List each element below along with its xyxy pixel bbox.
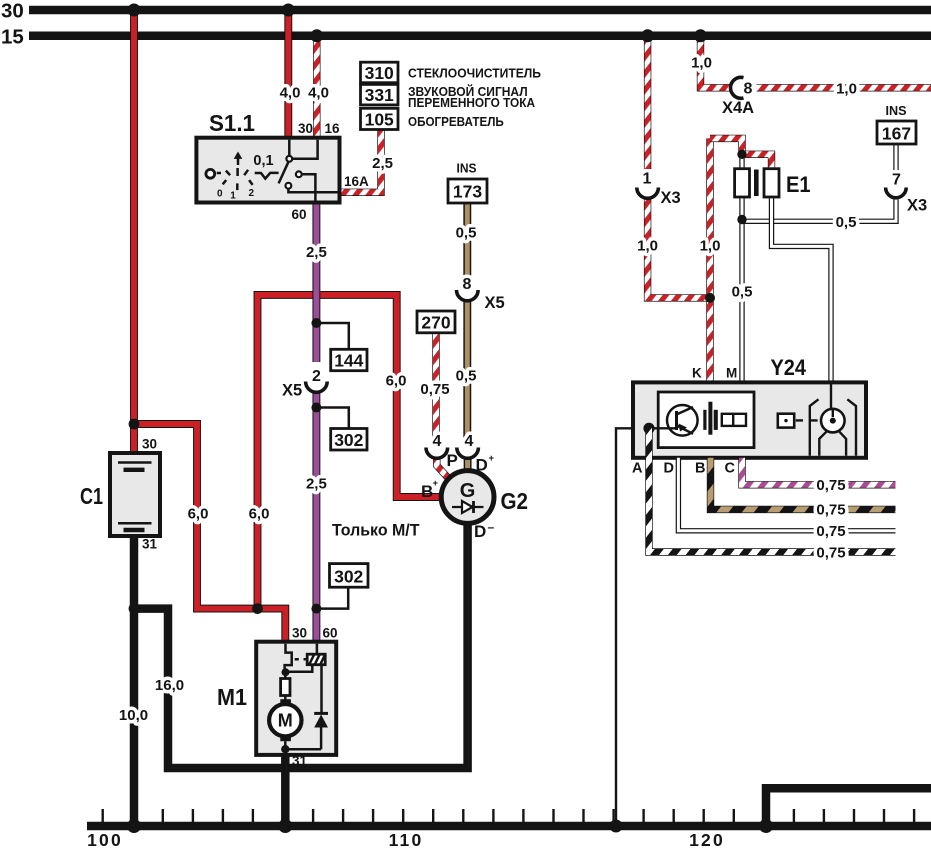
svg-text:30: 30 bbox=[298, 121, 313, 136]
heater E1 right element bbox=[764, 169, 779, 197]
wire hatched tan Y24 pin B bbox=[711, 458, 896, 510]
Y24 transistor collector bbox=[677, 407, 694, 415]
svg-text:4,0: 4,0 bbox=[280, 85, 301, 102]
svg-text:0,75: 0,75 bbox=[420, 381, 449, 398]
M1 junction dot top bbox=[282, 668, 290, 676]
junction bus30 at C1 feed bbox=[128, 4, 141, 17]
svg-text:0: 0 bbox=[217, 189, 223, 200]
wire hatched red K riser to Y24 bbox=[706, 138, 713, 384]
Y24 capacitor bars bbox=[703, 410, 706, 430]
fuse box 105 bbox=[361, 108, 399, 129]
junction hatched X3-1 to K riser bbox=[705, 293, 715, 303]
svg-text:6,0: 6,0 bbox=[249, 506, 270, 523]
connector X4A pin8 arc bbox=[731, 77, 744, 98]
Y24 transistor circle bbox=[667, 405, 698, 436]
svg-text:2,5: 2,5 bbox=[306, 476, 327, 493]
wire hatched red junction to E1 right bbox=[742, 154, 772, 170]
svg-text:B: B bbox=[695, 461, 705, 477]
M1 dashes bbox=[295, 658, 307, 661]
connector 4 arc left bbox=[426, 448, 448, 459]
G2 diode symbol bbox=[452, 506, 484, 508]
svg-text:1,0: 1,0 bbox=[691, 55, 712, 72]
C1 plate long top bbox=[118, 461, 152, 464]
M1 junction to coil bottom bbox=[286, 665, 313, 672]
motor unit M1 body bbox=[256, 642, 336, 755]
Y24 transistor base bar bbox=[675, 411, 678, 430]
Y24 sensor square bbox=[778, 414, 794, 428]
wire hatched red X3-1 to K riser bbox=[648, 200, 710, 298]
wire hatched red connector 4 to G2 B+ bbox=[437, 459, 450, 480]
node 302 box lower bbox=[330, 564, 369, 588]
svg-text:0,1: 0,1 bbox=[253, 153, 273, 169]
svg-text:310: 310 bbox=[365, 63, 394, 83]
svg-text:120: 120 bbox=[689, 830, 725, 848]
svg-text:144: 144 bbox=[334, 351, 363, 371]
svg-text:M: M bbox=[726, 366, 737, 381]
C1 plate short bottom bbox=[124, 528, 145, 532]
svg-text:INS: INS bbox=[886, 103, 907, 118]
Y24 coil circle bbox=[821, 409, 845, 433]
svg-text:1,0: 1,0 bbox=[836, 81, 857, 98]
wire hatched red from box 270 bbox=[432, 333, 439, 442]
svg-text:G: G bbox=[460, 480, 476, 502]
wire black M1 pin31 ground bbox=[281, 754, 290, 826]
heater E1 left element bbox=[735, 169, 750, 197]
wire tan X5-8 to connector 4 bbox=[463, 301, 471, 442]
svg-text:X3: X3 bbox=[907, 197, 927, 215]
wire white box167 to X3-7 bbox=[893, 144, 898, 171]
wire S1.1 pin30 feed from bus 30 bbox=[284, 10, 292, 139]
junction bus15 at X3-1 feed bbox=[641, 29, 654, 42]
svg-text:X4A: X4A bbox=[722, 99, 754, 117]
svg-text:167: 167 bbox=[882, 124, 911, 144]
S1.1 zigzag symbol bbox=[255, 173, 279, 179]
svg-text:0,5: 0,5 bbox=[836, 214, 857, 231]
svg-text:10,0: 10,0 bbox=[119, 707, 148, 724]
wire red riser to G2 B+ bbox=[258, 295, 444, 609]
Y24 spark gap right inner bbox=[839, 431, 846, 456]
wire white E1 left top bbox=[739, 154, 744, 170]
S1.1 contact 2 with lead to pin60 bbox=[296, 171, 302, 177]
svg-text:B: B bbox=[421, 482, 433, 501]
junction hatched at E1 top bbox=[737, 150, 746, 159]
relay Y24 body bbox=[633, 382, 866, 457]
bus 15 bbox=[29, 32, 931, 41]
connector X3 pin7 arc bbox=[886, 188, 907, 198]
svg-text:30: 30 bbox=[292, 626, 307, 641]
svg-text:105: 105 bbox=[365, 110, 394, 130]
svg-text:0,75: 0,75 bbox=[816, 523, 845, 540]
Y24 base lead from pin A bbox=[649, 427, 677, 429]
svg-text:G2: G2 bbox=[501, 488, 529, 514]
svg-text:173: 173 bbox=[453, 182, 482, 202]
svg-text:31: 31 bbox=[142, 537, 158, 552]
wire tan connector 4 to G2 D+ bbox=[464, 459, 472, 474]
Y24 junction dot pin A bbox=[643, 423, 654, 434]
fuse box 331 bbox=[361, 84, 399, 105]
M1 diode bbox=[320, 665, 323, 750]
svg-text:4: 4 bbox=[433, 433, 442, 450]
svg-text:S1.1: S1.1 bbox=[209, 110, 255, 136]
svg-text:A: A bbox=[632, 461, 643, 477]
svg-text:8: 8 bbox=[744, 81, 753, 98]
svg-text:D: D bbox=[474, 522, 486, 541]
node 144 box bbox=[331, 349, 367, 370]
bus 30 bbox=[29, 6, 931, 15]
M1 junction dot bottom bbox=[281, 745, 289, 753]
svg-text:X5: X5 bbox=[282, 382, 302, 400]
Y24 dashed link bbox=[796, 419, 818, 421]
M1 brush top bbox=[280, 699, 291, 704]
C1 plate short top bbox=[124, 468, 145, 472]
wire lead to box 302 lower bbox=[316, 586, 348, 609]
S1.1 internal pin30 lead bbox=[288, 140, 291, 156]
fuse box 310 bbox=[361, 62, 399, 82]
S1.1 contact 3 with lead to 16A bbox=[286, 183, 292, 189]
svg-text:+: + bbox=[489, 453, 495, 464]
svg-text:60: 60 bbox=[292, 207, 307, 222]
wire white junction to X3-7 bbox=[742, 200, 896, 222]
svg-text:+: + bbox=[433, 478, 439, 489]
svg-text:E1: E1 bbox=[786, 172, 811, 197]
svg-text:ОБОГРЕВАТЕЛЬ: ОБОГРЕВАТЕЛЬ bbox=[408, 114, 504, 129]
svg-text:X3: X3 bbox=[661, 189, 681, 207]
junction bus30 at S1.1 feed bbox=[282, 4, 295, 17]
ruler baseline bbox=[87, 822, 931, 831]
svg-text:302: 302 bbox=[334, 430, 363, 450]
svg-text:C: C bbox=[725, 461, 736, 477]
wire tan 173 to X5-8 bbox=[463, 203, 471, 280]
svg-text:M1: M1 bbox=[217, 684, 247, 710]
wire purple 60 upper S1.1 to X5-2 bbox=[312, 203, 320, 363]
junction purple at 144 bbox=[311, 318, 321, 328]
svg-text:D: D bbox=[664, 461, 674, 477]
Y24 spark gap left inner bbox=[819, 431, 827, 456]
C1 plate long bottom bbox=[118, 522, 152, 525]
junction red C1 branch bbox=[129, 419, 140, 430]
connector 4 arc right bbox=[457, 448, 479, 459]
svg-text:0,5: 0,5 bbox=[732, 284, 753, 301]
svg-text:0,75: 0,75 bbox=[816, 477, 845, 494]
Y24 transistor emitter bbox=[677, 426, 694, 434]
svg-text:8: 8 bbox=[463, 276, 472, 293]
junction ruler at step bbox=[759, 819, 773, 833]
svg-text:16,0: 16,0 bbox=[155, 677, 184, 694]
svg-text:СТЕКЛООЧИСТИТЕЛЬ: СТЕКЛООЧИСТИТЕЛЬ bbox=[408, 66, 541, 81]
Y24 divided rectangle bbox=[722, 414, 746, 426]
M1 motor circle bbox=[269, 704, 301, 736]
junction purple at 302 upper bbox=[311, 403, 321, 413]
node 173 box bbox=[448, 179, 487, 203]
svg-text:6,0: 6,0 bbox=[386, 373, 407, 390]
svg-text:1,0: 1,0 bbox=[700, 238, 721, 255]
svg-text:2: 2 bbox=[249, 188, 255, 199]
junction red riser bbox=[252, 603, 263, 614]
junction bus15 at S1.1 pin16 feed bbox=[310, 29, 323, 42]
svg-text:30: 30 bbox=[1, 0, 24, 23]
svg-text:1: 1 bbox=[643, 171, 652, 188]
S1.1 switch blade bbox=[279, 161, 289, 183]
wire hatched red link to E1 junction bbox=[710, 138, 742, 154]
junction bus15 at X4A feed bbox=[694, 29, 707, 42]
wire lead to box 302 upper bbox=[316, 408, 348, 430]
connector X5 pin8 arc bbox=[457, 290, 479, 301]
wire white E1 left bottom to junction bbox=[739, 197, 744, 382]
S1.1 contact 1 bbox=[286, 156, 292, 162]
wire black C1 ground bbox=[130, 536, 139, 826]
svg-text:302: 302 bbox=[334, 567, 363, 587]
heater E1 center bar bbox=[754, 170, 759, 197]
svg-text:0,75: 0,75 bbox=[816, 545, 845, 562]
svg-text:INS: INS bbox=[457, 161, 477, 176]
svg-text:110: 110 bbox=[389, 830, 424, 848]
svg-text:60: 60 bbox=[323, 626, 338, 641]
wire C1 feed from bus 30 bbox=[130, 10, 138, 453]
wire white E1 right leg to Y24 coil bbox=[772, 197, 832, 382]
svg-text:M: M bbox=[278, 711, 293, 731]
switch S1.1 body bbox=[196, 138, 339, 203]
svg-text:P: P bbox=[447, 451, 458, 470]
battery C1 body bbox=[110, 453, 160, 536]
ground step wire bottom right bbox=[766, 788, 931, 826]
Y24 spark gap right outer bbox=[847, 399, 856, 456]
junction white below E1 bbox=[737, 215, 746, 224]
S1.1 internal pin16 lead bbox=[292, 140, 318, 159]
svg-text:Y24: Y24 bbox=[771, 355, 807, 380]
svg-text:X5: X5 bbox=[485, 294, 505, 312]
svg-text:ПЕРЕМЕННОГО ТОКА: ПЕРЕМЕННОГО ТОКА bbox=[408, 95, 536, 110]
svg-text:30: 30 bbox=[142, 437, 157, 452]
svg-text:0,5: 0,5 bbox=[456, 368, 477, 385]
svg-text:2,5: 2,5 bbox=[306, 244, 327, 261]
wire hatched black Y24 pin A bbox=[649, 428, 896, 552]
M1 bottom lead bbox=[284, 741, 287, 749]
wire hatched red bus15 to X4A bbox=[701, 36, 732, 88]
svg-text:16A: 16A bbox=[344, 174, 369, 189]
S1.1 rotary positions symbol bbox=[223, 152, 253, 191]
svg-text:16: 16 bbox=[325, 121, 341, 136]
svg-text:2: 2 bbox=[312, 368, 321, 385]
wire red branch C1 to M1 pin30 bbox=[134, 424, 285, 643]
wire hatched red X4A to right edge bbox=[757, 84, 931, 91]
M1 brush bottom bbox=[280, 736, 291, 741]
svg-text:4,0: 4,0 bbox=[308, 85, 329, 102]
wire black ground branch G2 D- bbox=[134, 520, 468, 768]
svg-text:0,75: 0,75 bbox=[816, 502, 845, 519]
svg-text:C1: C1 bbox=[80, 483, 103, 509]
M1 resistor bbox=[284, 671, 287, 700]
svg-text:270: 270 bbox=[421, 313, 450, 333]
junction ruler at Y24 link bbox=[610, 820, 623, 833]
node 167 box bbox=[877, 121, 916, 144]
wire purple 60 lower X5-2 to M1 bbox=[312, 393, 320, 644]
M1 pin30 internal contact bbox=[285, 644, 292, 669]
M1 pin31 lead bbox=[284, 749, 287, 754]
connector X5 pin2 arc bbox=[306, 382, 328, 393]
M1 pin60 to coil top bbox=[316, 644, 319, 655]
svg-text:4: 4 bbox=[465, 433, 474, 450]
svg-text:Только М/Т: Только М/Т bbox=[332, 521, 420, 540]
Y24 coil feed line bbox=[821, 382, 831, 420]
svg-text:7: 7 bbox=[892, 172, 901, 189]
junction ruler at C1 ground bbox=[127, 819, 141, 833]
connector X3 pin1 arc bbox=[637, 188, 659, 199]
svg-text:D: D bbox=[476, 456, 488, 475]
node 270 box bbox=[417, 311, 455, 333]
svg-text:K: K bbox=[692, 366, 702, 381]
M1 diode to junction bbox=[285, 748, 321, 751]
generator G2 body bbox=[441, 471, 494, 524]
M1 relay coil bbox=[307, 654, 325, 665]
Y24 spark gap left outer bbox=[810, 399, 819, 456]
wire hatched purple Y24 pin C bbox=[742, 458, 896, 485]
svg-text:1,0: 1,0 bbox=[637, 238, 658, 255]
ruler ticks bbox=[103, 809, 914, 822]
node 302 box upper bbox=[331, 429, 367, 451]
svg-text:2,5: 2,5 bbox=[372, 155, 393, 172]
svg-text:0,5: 0,5 bbox=[456, 225, 477, 242]
wire hatched red 16A to fuse 105 bbox=[340, 129, 381, 192]
S1.1 knob circle bbox=[206, 169, 215, 178]
wire lead to box 144 bbox=[316, 323, 348, 350]
svg-text:–: – bbox=[488, 520, 495, 534]
junction black ground branch bbox=[129, 603, 140, 614]
junction ruler at M1 ground bbox=[278, 819, 292, 833]
wire hatched red bus15 to X3-1 bbox=[644, 36, 651, 169]
svg-text:6,0: 6,0 bbox=[188, 506, 209, 523]
svg-text:331: 331 bbox=[365, 85, 394, 105]
Y24 inner module box bbox=[658, 392, 754, 448]
svg-text:1: 1 bbox=[230, 191, 236, 202]
wire thin link Y24 A to ruler bbox=[616, 428, 649, 826]
junction purple at 302 lower bbox=[311, 604, 321, 614]
svg-text:31: 31 bbox=[292, 754, 308, 769]
wire white Y24 pin D bbox=[678, 458, 895, 531]
wire hatched red S1.1 pin16 feed from bus 15 bbox=[313, 36, 320, 139]
svg-text:15: 15 bbox=[1, 25, 24, 48]
svg-text:100: 100 bbox=[87, 830, 123, 848]
